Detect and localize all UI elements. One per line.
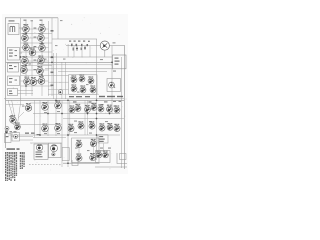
transistor Q29b [75,104,81,112]
transistor Q34b [78,121,84,129]
row lead y81 [21,80,49,82]
junction dots [20,33,113,164]
row wire y43 [21,42,53,44]
bus wire y100 [6,99,125,101]
bottom-right box [96,151,111,163]
transistor Q37 [114,124,120,132]
mid-column value labels [34,28,37,29]
wire left feed b [20,52,23,54]
label row right of cluster [99,96,105,97]
module A1 marks [115,58,119,59]
wire y104 stub [6,104,24,106]
transistor Q21 box [107,79,121,92]
filter FL1 box [8,76,20,86]
bus wire y69 [45,68,112,70]
wire pilot lead [20,139,34,141]
transistor Q39 [90,139,96,147]
rail x32 wire [31,21,33,96]
terminal block TB1 [8,89,18,96]
transistor Q14 [38,76,45,84]
transistor Q30b [91,103,97,111]
capacitor C1 marks [51,30,54,32]
bottom bus wire [63,162,100,164]
transistor Q11 [37,66,44,74]
transistor Q24b [5,127,9,131]
transistor Q36 [99,123,105,131]
label row y101.5 [73,101,77,102]
junction dot lower-left [6,132,8,134]
transistor Q43 [96,151,102,158]
transistor Q34 [68,124,74,132]
transistor Q36b [107,123,113,130]
fuse F1 mark [6,136,9,137]
bus wire y103 [30,102,97,104]
drop wire x90 [89,46,91,57]
rail x52 wire [51,18,53,96]
rail x56 wire [55,100,57,136]
rail x34.5 wire [34,100,36,137]
slant wire c [18,100,21,124]
speaker SP1 small circle [52,153,55,156]
emitter stub a [78,148,80,155]
transistor Q3 [22,33,29,41]
transistor Q8 [22,56,29,64]
transistor Q25 [42,102,49,110]
pilot box P1 [12,133,20,142]
speaker SP1 circle [51,145,58,152]
rail x40 wire [39,100,41,136]
transistor Q28 [55,123,62,131]
row wire y82 stub [48,81,69,83]
transistor Q33 [114,105,120,113]
meter M2 text rows [36,152,43,153]
wire lamp right lead to frame [109,45,124,47]
transistor Q15 [71,75,77,83]
wire left feed a [19,27,24,29]
transistor Q22 [25,103,31,111]
bus wire y57 [21,56,113,58]
transistor Q32 [107,105,113,113]
drop wire x74 [73,46,75,57]
rail x69.8 wire [69,100,71,135]
row lead y47.5 [21,47,49,49]
transistor Q35 [89,121,95,129]
row lead y38 [21,37,49,39]
dashed wire bottom-left [29,164,62,166]
lamp/meter M1 [100,41,109,50]
transistor Q9 [38,56,45,64]
transistor Q30 [85,105,91,113]
rail x42 wire [41,21,43,96]
rail x61.9 wire [61,62,63,99]
bottom edge wire [95,166,127,168]
stub vertical x68 upper [67,44,69,57]
rail x56.3 wire [55,53,57,99]
relay box K2 [98,135,108,143]
bus wire y71.5 [58,71,107,73]
connector J1 box [8,24,19,35]
row wire y118 [63,118,124,120]
transistor Q27 [42,124,49,132]
pilot P1 circle [14,135,18,139]
transistor Q1 [23,24,30,32]
rail x48 wire [48,21,50,96]
transistor Q10 [21,65,28,73]
label row y133 [25,133,29,134]
transistor Q2 [39,24,46,32]
transistor Q24 [15,123,21,130]
transistor Q31 [98,104,104,112]
page frame top border wire [5,17,58,19]
transistor Q23 [10,115,16,123]
row wire y137 [33,137,66,139]
row wire y75 [21,74,69,76]
rail x62 wire [61,100,63,167]
rail x68 wire [67,100,69,167]
transistor Q38 [76,140,82,148]
bus wire y98.8 [4,98,124,100]
row lead y61 [21,60,49,62]
row wire y113 [33,113,120,115]
transistor Q13 [30,77,37,85]
row wire y86 [21,85,53,87]
rail x96 wire [96,39,98,160]
transistor Q6 [39,43,46,51]
rail top labels [24,20,27,21]
band labels [29,63,32,64]
row wire y89.6 stub [48,89,69,91]
emitter stub b [92,147,94,154]
transistor Q18 [71,84,77,92]
slant wire d [18,112,24,118]
label row under cluster [69,96,74,97]
meter M2 box [34,144,48,159]
left inner rail [20,18,22,100]
rail x48 wire [47,100,49,136]
resistor R5 mark [73,48,74,51]
row wire y124.5 [13,124,62,126]
transistor Q40 [76,154,82,162]
row wire y52 [21,51,53,53]
bus wire y62 [6,61,112,63]
label row y131 [5,131,8,132]
label ticks under y39 bus [69,41,71,42]
notes fine-print block (rotated text) [5,152,17,181]
transistor Q7 [29,48,36,56]
row wire y33 [21,33,53,35]
rail x87.6 wire [87,100,89,135]
label 1-4-1 [7,148,16,150]
rail x85 wire [84,100,86,135]
slant wire b [12,100,16,124]
row lead y70 [21,69,49,71]
row wire y65 [21,65,53,67]
row wire y135 [8,134,120,136]
meter M2 circle [36,144,42,150]
capacitor C21 [76,47,78,52]
bottom-right small box [120,154,127,160]
paper scan tint [2,14,128,174]
switch S1 box [8,48,20,61]
rail x26 wire [25,21,27,96]
sprinkle labels [9,20,117,151]
bus wire y64.8 [40,64,112,66]
connector L-box [72,160,78,166]
wire x103.5 drop [103,144,105,151]
transistor Q26 [55,101,62,109]
wire TB1 lead a [18,90,34,92]
label above J1 [9,20,15,21]
bottom-right step bracket [117,153,127,164]
transistor Q5 [23,43,30,51]
right label box text [99,136,103,137]
wire fuse lead [11,136,33,138]
cluster box outline [69,75,98,95]
wire bus y39 [52,38,97,40]
wire TB1 lead b [18,92,34,94]
jack bracket box [62,148,69,161]
label row y101 right [113,101,116,102]
filter FL1 marks [9,78,13,79]
transistor Q21 [109,82,115,88]
top-right step wire [57,18,59,39]
module A1 box [113,55,127,69]
notes fine-print block 2 (rotated text) [20,152,25,169]
terminal TB1 marks [9,91,12,92]
capacitor C22 [84,46,86,50]
relay K1 marks [9,65,12,66]
label right of lamp [113,42,116,43]
transistor Q45 [58,90,63,95]
row lead y29 [21,28,49,30]
capacitor C20 marks [71,44,73,47]
wire lamp left lead [66,45,100,47]
wire y143 link [30,142,62,144]
rail x65.6 wire [65,62,67,99]
switch S1 contacts [9,50,13,51]
output stage box outline [72,138,100,162]
page frame right border wire [123,45,125,169]
page frame left border wire [5,18,7,148]
transistor Q4 [38,33,45,41]
relay K1 box [8,63,19,72]
transistor Q41 [90,153,96,161]
fuse F1 box [5,134,12,143]
speaker SP1 box [49,143,62,158]
transistor Q16 [79,74,85,82]
connector J1 squiggle [10,26,15,32]
row wire y94.2 [48,93,99,95]
scan speckle noise [4,17,126,170]
wire lamp down lead [104,50,106,57]
transistor Q29 [69,105,75,113]
rail x53.5 wire [53,53,55,99]
drop wire x82 [81,46,83,57]
transistor Q19 [80,85,86,93]
bus vertical x112 [111,46,113,114]
transistor Q44 [103,151,109,158]
slant wire a [8,100,13,117]
transistor Q20 [90,85,96,93]
inner right rail wire [121,57,123,168]
transistor Q17 [88,76,94,84]
transistor Q12 [24,77,31,85]
